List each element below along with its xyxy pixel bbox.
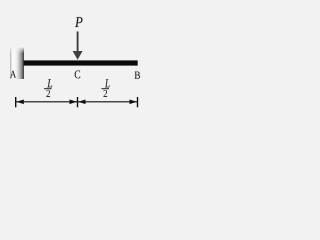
dim arrowhead center-right inward	[78, 100, 85, 105]
dimension line right half	[78, 101, 138, 103]
dimension tick at C	[77, 97, 79, 107]
dimension line left half	[16, 101, 77, 103]
dim arrowhead center-left inward	[70, 100, 77, 105]
wall support at A	[10, 48, 24, 79]
wall top soft fade	[10, 48, 24, 54]
force P arrowhead	[73, 51, 83, 60]
dim arrowhead right outward	[130, 100, 137, 105]
dimension tick at A	[15, 97, 17, 107]
fraction bar right L/2	[101, 88, 109, 90]
fraction bar left L/2	[44, 88, 52, 90]
dimension tick at B	[137, 97, 139, 107]
dim arrowhead left outward	[16, 100, 23, 105]
beam A-B	[24, 60, 138, 65]
force P arrow shaft	[77, 32, 79, 53]
background	[0, 0, 148, 113]
